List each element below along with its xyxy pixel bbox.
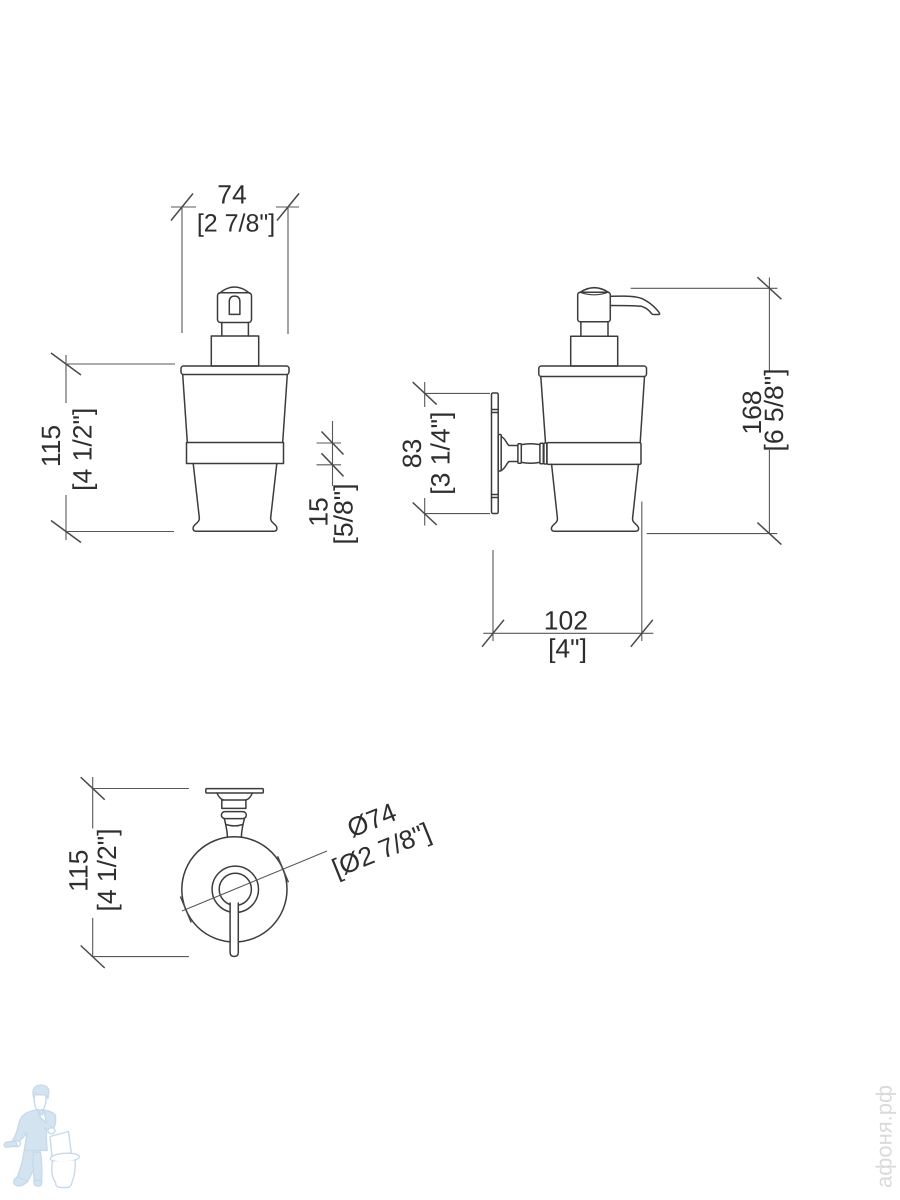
plumber head: [34, 1095, 46, 1111]
plumber suit torso: [12, 1110, 56, 1150]
ring inner circle: [219, 873, 251, 905]
svg-text:115: 115: [64, 850, 94, 892]
dim 15 ticks: [322, 432, 344, 477]
svg-text:[4 1/2"]: [4 1/2"]: [68, 408, 98, 491]
wall plate: [492, 393, 499, 514]
pump neck side: [581, 322, 608, 337]
bow tie: [39, 1110, 45, 1115]
wrench hand: [13, 1141, 21, 1147]
svg-text:102: 102: [544, 606, 588, 636]
knob slot: [229, 296, 240, 314]
toilet rim: [50, 1152, 80, 1163]
dim 74 ticks: [171, 194, 299, 221]
dim 102 ext lines: [493, 502, 642, 642]
bracket barrel: [521, 444, 540, 464]
dimensions of view 1: [171, 207, 299, 335]
spout: [610, 296, 659, 314]
dim 74 extension lines: [182, 207, 288, 335]
pump neck: [222, 323, 249, 337]
dim dia74 ticks: [180, 856, 288, 922]
toilet bowl: [52, 1161, 75, 1188]
bracket flange: [498, 435, 501, 472]
dimensions of view 2: [425, 382, 490, 526]
dim 83 ext lines: [425, 393, 490, 513]
body rim side: [539, 366, 647, 377]
dim 115b ticks: [81, 777, 105, 968]
body upper taper: [183, 375, 288, 443]
lever: [230, 903, 238, 957]
pump collar: [211, 336, 258, 366]
dim 15 line: [332, 421, 334, 486]
body upper taper side: [541, 377, 645, 443]
pump knob: [218, 293, 252, 323]
bracket bell top view: [224, 819, 244, 839]
dimensions of view 3: [93, 777, 189, 957]
dim 74 line stubs: [171, 206, 299, 208]
bell arc: [226, 825, 243, 826]
svg-text:[4 1/2"]: [4 1/2"]: [92, 828, 122, 911]
dim 115b line: [92, 777, 94, 957]
svg-text:115: 115: [36, 425, 66, 467]
bracket bead 1: [518, 444, 521, 463]
svg-text:[6 5/8"]: [6 5/8"]: [759, 368, 789, 451]
dim 115 ticks: [51, 353, 81, 543]
toilet tank: [50, 1132, 72, 1158]
svg-text:83: 83: [397, 439, 427, 468]
svg-text:[5/8"]: [5/8"]: [329, 484, 359, 545]
svg-text:[4"]: [4"]: [548, 634, 587, 664]
bracket bead 2: [540, 443, 543, 463]
pump head dome lower arc: [582, 293, 607, 295]
svg-text:[3 1/4"]: [3 1/4"]: [425, 412, 455, 495]
body rim: [181, 366, 289, 375]
dim 102 line: [483, 632, 653, 634]
pump knob dome arc: [220, 287, 250, 293]
dim 115b ext lines: [93, 789, 189, 957]
svg-text:74: 74: [217, 180, 246, 210]
bracket ring top view: [221, 812, 246, 819]
dim 102 ticks: [482, 620, 653, 647]
plate top view: [206, 789, 263, 793]
bracket barrel top view: [222, 800, 246, 808]
pump head dome: [580, 288, 610, 293]
dim 83 ticks: [413, 382, 437, 525]
bracket flange top view: [217, 793, 252, 800]
pump head: [578, 292, 611, 321]
svg-text:[2 7/8"]: [2 7/8"]: [197, 210, 275, 238]
holder ring: [547, 443, 641, 465]
dim 168 ext lines: [631, 288, 778, 533]
leg back: [33, 1152, 42, 1180]
wrench: [4, 1141, 17, 1147]
dim 115 ext lines: [66, 364, 175, 532]
bracket bead 3: [544, 443, 547, 464]
dim 115 line: [65, 355, 67, 540]
dim 168 ticks: [757, 277, 781, 544]
shoe left: [14, 1177, 28, 1186]
shirt: [39, 1111, 47, 1123]
band: [187, 443, 284, 464]
watermark plumber figure: [4, 1085, 80, 1187]
plate screw marks: [492, 410, 499, 498]
shoe right: [34, 1180, 42, 1186]
dim dia74 line: [182, 851, 327, 911]
dim 83 line: [424, 382, 426, 526]
body lower with base: [193, 464, 277, 532]
dim 15 stubs: [317, 443, 342, 465]
svg-text:афоня.рф: афоня.рф: [872, 1085, 897, 1188]
plumber hair: [33, 1085, 49, 1098]
body lower side with base: [551, 464, 638, 531]
ring outer circle: [212, 866, 258, 912]
dim 168 line: [768, 278, 770, 534]
pump collar side: [571, 336, 618, 366]
leg crossed front: [17, 1150, 40, 1181]
bracket concave neck: [501, 437, 517, 471]
hand on tank: [48, 1128, 55, 1134]
big circle: [182, 837, 287, 942]
